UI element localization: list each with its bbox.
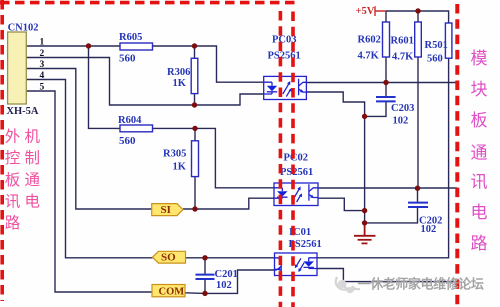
wire C203 bottom to ground column <box>365 101 386 116</box>
wire R306 leads <box>194 46 196 105</box>
svg-text:R604: R604 <box>118 115 142 126</box>
capacitor C202 <box>408 203 428 207</box>
wire C203 top lead <box>385 83 387 98</box>
svg-text:通: 通 <box>471 144 488 163</box>
svg-text:560: 560 <box>119 135 136 147</box>
wire pin3 to SI flag <box>26 69 151 210</box>
svg-text:+5V: +5V <box>356 6 375 17</box>
svg-text:一休老师家电维修论坛: 一休老师家电维修论坛 <box>358 277 484 292</box>
svg-text:模: 模 <box>471 49 488 68</box>
wire PC03 emitter to ground column <box>306 92 364 223</box>
wire R604 to PC02 anode <box>153 128 275 187</box>
svg-text:PS2561: PS2561 <box>268 50 301 61</box>
resistor R305 <box>192 141 199 177</box>
svg-text:控制: 控制 <box>5 149 44 167</box>
capacitor C203 <box>376 97 396 101</box>
wire R601 leads <box>417 11 419 188</box>
wire +5V rail navy part <box>386 11 449 23</box>
resistor R602 <box>383 22 390 57</box>
svg-text:SI: SI <box>161 204 171 216</box>
wire R605 to PC03 anode <box>153 46 264 82</box>
optocoupler PC03 <box>264 76 307 99</box>
svg-text:路: 路 <box>471 234 488 253</box>
optocoupler IC01 <box>275 253 318 276</box>
svg-text:2: 2 <box>40 49 45 59</box>
wire pin4 to SO flag <box>26 80 152 258</box>
svg-text:块: 块 <box>471 80 488 99</box>
wire R305 leads <box>194 128 196 209</box>
svg-text:讯: 讯 <box>471 173 488 192</box>
wire C201 leads <box>204 258 206 294</box>
wire pin2 row to PC03 cathode <box>26 58 263 106</box>
svg-text:R605: R605 <box>119 32 142 43</box>
resistor R604 <box>120 125 153 132</box>
wire pin1 row to R605 <box>26 45 120 47</box>
svg-text:电: 电 <box>471 203 488 222</box>
svg-text:R306: R306 <box>167 67 190 78</box>
wire SO to IC01 anode row <box>186 257 275 259</box>
svg-text:PC02: PC02 <box>284 152 309 163</box>
wire PC02 collector row y188 <box>318 187 457 189</box>
svg-text:PS2561: PS2561 <box>280 167 313 178</box>
wires layer <box>26 11 457 293</box>
svg-text:5: 5 <box>40 82 45 92</box>
dashed divider 2 <box>291 12 295 307</box>
wire pin5 to COM <box>26 91 152 292</box>
svg-text:4.7K: 4.7K <box>392 51 414 62</box>
resistor R601 <box>415 22 422 57</box>
wire IC01 emitter stub right <box>317 269 457 282</box>
SO flag <box>153 251 186 263</box>
wire R501 column to IC01 collector <box>317 58 449 258</box>
svg-text:R602: R602 <box>358 34 381 45</box>
wire C202 top lead <box>417 188 419 202</box>
svg-text:4: 4 <box>40 71 45 81</box>
dashed right border <box>455 4 459 307</box>
svg-text:1K: 1K <box>173 78 187 89</box>
svg-text:3: 3 <box>40 60 45 70</box>
dashed top border <box>0 1 298 5</box>
svg-text:C203: C203 <box>391 103 414 114</box>
text labels blue <box>8 22 448 291</box>
svg-text:讯电: 讯电 <box>5 192 44 210</box>
dashed left border <box>0 0 4 301</box>
wire PC03 collector rail y82.5 <box>306 82 457 84</box>
svg-text:C201: C201 <box>215 269 238 280</box>
resistor R605 <box>120 43 153 50</box>
connector CN102 body <box>8 32 27 104</box>
wire C202 bottom to ground <box>365 207 418 223</box>
left magenta caption 外机控制板通讯电路 <box>5 127 44 232</box>
svg-text:R501: R501 <box>425 40 448 51</box>
watermark logo <box>336 277 360 290</box>
COM label box <box>152 285 185 297</box>
svg-text:COM: COM <box>159 287 185 298</box>
dashed divider 1 <box>279 11 283 307</box>
capacitor C201 <box>196 275 215 279</box>
wire PC02 emitter to ground column <box>318 198 365 210</box>
svg-text:4.7K: 4.7K <box>358 50 380 61</box>
svg-text:板通: 板通 <box>5 171 44 189</box>
svg-text:1K: 1K <box>173 162 187 173</box>
svg-text:102: 102 <box>393 116 409 127</box>
svg-text:CN102: CN102 <box>8 22 39 33</box>
optocoupler PC02 <box>274 183 318 206</box>
svg-text:SO: SO <box>161 252 176 264</box>
pin numbers 1-5 <box>40 37 45 92</box>
svg-text:560: 560 <box>427 54 443 65</box>
+5V power symbol <box>375 6 386 16</box>
svg-text:XH-5A: XH-5A <box>6 106 38 117</box>
svg-text:560: 560 <box>119 52 136 64</box>
svg-text:102: 102 <box>216 280 232 291</box>
wire R602 leads <box>385 11 387 83</box>
svg-text:1: 1 <box>40 37 45 47</box>
wire pin1 branch down to R604 <box>89 46 121 128</box>
resistor R501 <box>445 23 452 58</box>
svg-text:R305: R305 <box>163 149 186 160</box>
svg-text:外机: 外机 <box>5 127 44 145</box>
svg-text:R601: R601 <box>391 35 414 46</box>
svg-text:板: 板 <box>471 111 488 130</box>
svg-text:路: 路 <box>5 214 21 232</box>
SI flag <box>152 204 183 216</box>
wire COM to IC01 <box>185 270 275 293</box>
resistor R306 <box>191 58 198 93</box>
wire SI to PC02 cathode <box>183 198 274 209</box>
node junction dots <box>86 8 421 296</box>
ground <box>354 223 376 244</box>
right magenta caption 模块板通讯电路 <box>471 49 488 253</box>
svg-text:102: 102 <box>421 224 437 235</box>
